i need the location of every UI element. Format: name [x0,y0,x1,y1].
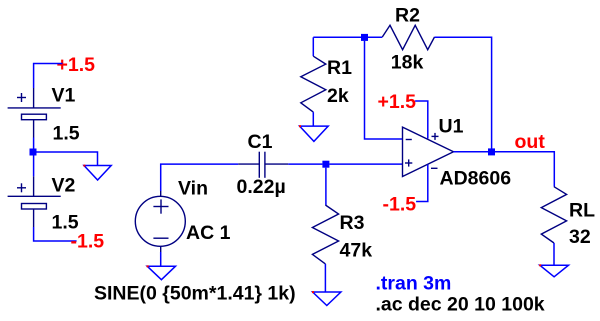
svg-text:U1: U1 [439,116,464,138]
wire to ground [34,152,98,166]
voltage source Vin [135,196,185,246]
svg-text:V2: V2 [52,175,76,197]
V- pin marker [431,167,438,169]
wire (V+ supply) [415,101,428,139]
wire (feedback to inverting input) [365,41,403,139]
svg-text:+1.5: +1.5 [57,54,96,76]
wire [33,138,35,153]
ground (RL) [540,265,569,277]
resistor R2 [382,25,434,49]
svg-text:AC 1: AC 1 [186,222,231,244]
battery V1 [8,88,61,138]
wire [288,163,322,165]
battery V2 [8,176,61,227]
capacitor C1 [238,152,288,178]
wire (output) [454,152,555,187]
ground anchor dots [83,125,541,293]
wire [160,252,162,266]
svg-text:+1.5: +1.5 [378,91,417,113]
resistor R3 [312,205,338,264]
wire [312,112,314,126]
wire to op-amp + input [329,163,402,165]
wire (R2 right to output node) [435,37,492,148]
svg-text:-1.5: -1.5 [71,231,105,253]
svg-text:out: out [515,131,546,153]
svg-text:SINE(0 {50m*1.41} 1k): SINE(0 {50m*1.41} 1k) [94,282,296,304]
junction (R1/R2/inverting input) [361,34,368,41]
wire (V- supply) [416,165,428,202]
svg-text:47k: 47k [340,239,373,261]
junction between V1 and V2 [30,149,37,156]
ground (Vin) [147,266,175,280]
junction (output node) [488,148,495,155]
resistor RL [541,187,566,243]
svg-text:AD8606: AD8606 [440,168,512,190]
wire [33,152,35,176]
wire [34,227,77,241]
wire [553,243,555,265]
resistor R1 [301,56,326,112]
wire [161,164,239,191]
wire [312,37,314,56]
wire [34,64,63,89]
svg-text:0.22µ: 0.22µ [237,176,286,198]
svg-text:RL: RL [569,199,595,221]
junction node at R3 top [322,161,329,168]
non-inverting input marker [405,162,412,164]
svg-text:32: 32 [569,226,591,248]
svg-text:-1.5: -1.5 [383,193,417,215]
svg-text:R1: R1 [327,57,352,79]
svg-text:.ac dec 20 10 100k: .ac dec 20 10 100k [376,294,545,316]
svg-text:V1: V1 [52,85,76,107]
svg-text:C1: C1 [248,131,273,153]
svg-text:2k: 2k [327,85,349,107]
svg-text:R3: R3 [340,212,365,234]
ground (R3) [313,292,341,306]
ground (R1) [300,126,329,141]
V+ pin marker [432,135,439,137]
svg-text:Vin: Vin [178,178,208,200]
wire [324,264,326,292]
wire (R1 top to junction to R2) [313,36,382,38]
svg-text:18k: 18k [391,52,424,74]
wire [325,168,327,205]
inverting input marker [406,139,412,141]
op-amp U1 [403,127,454,176]
svg-text:.tran 3m: .tran 3m [376,273,452,295]
ground (mid rail) [84,166,111,181]
svg-text:R2: R2 [395,4,420,26]
svg-text:1.5: 1.5 [53,123,80,145]
